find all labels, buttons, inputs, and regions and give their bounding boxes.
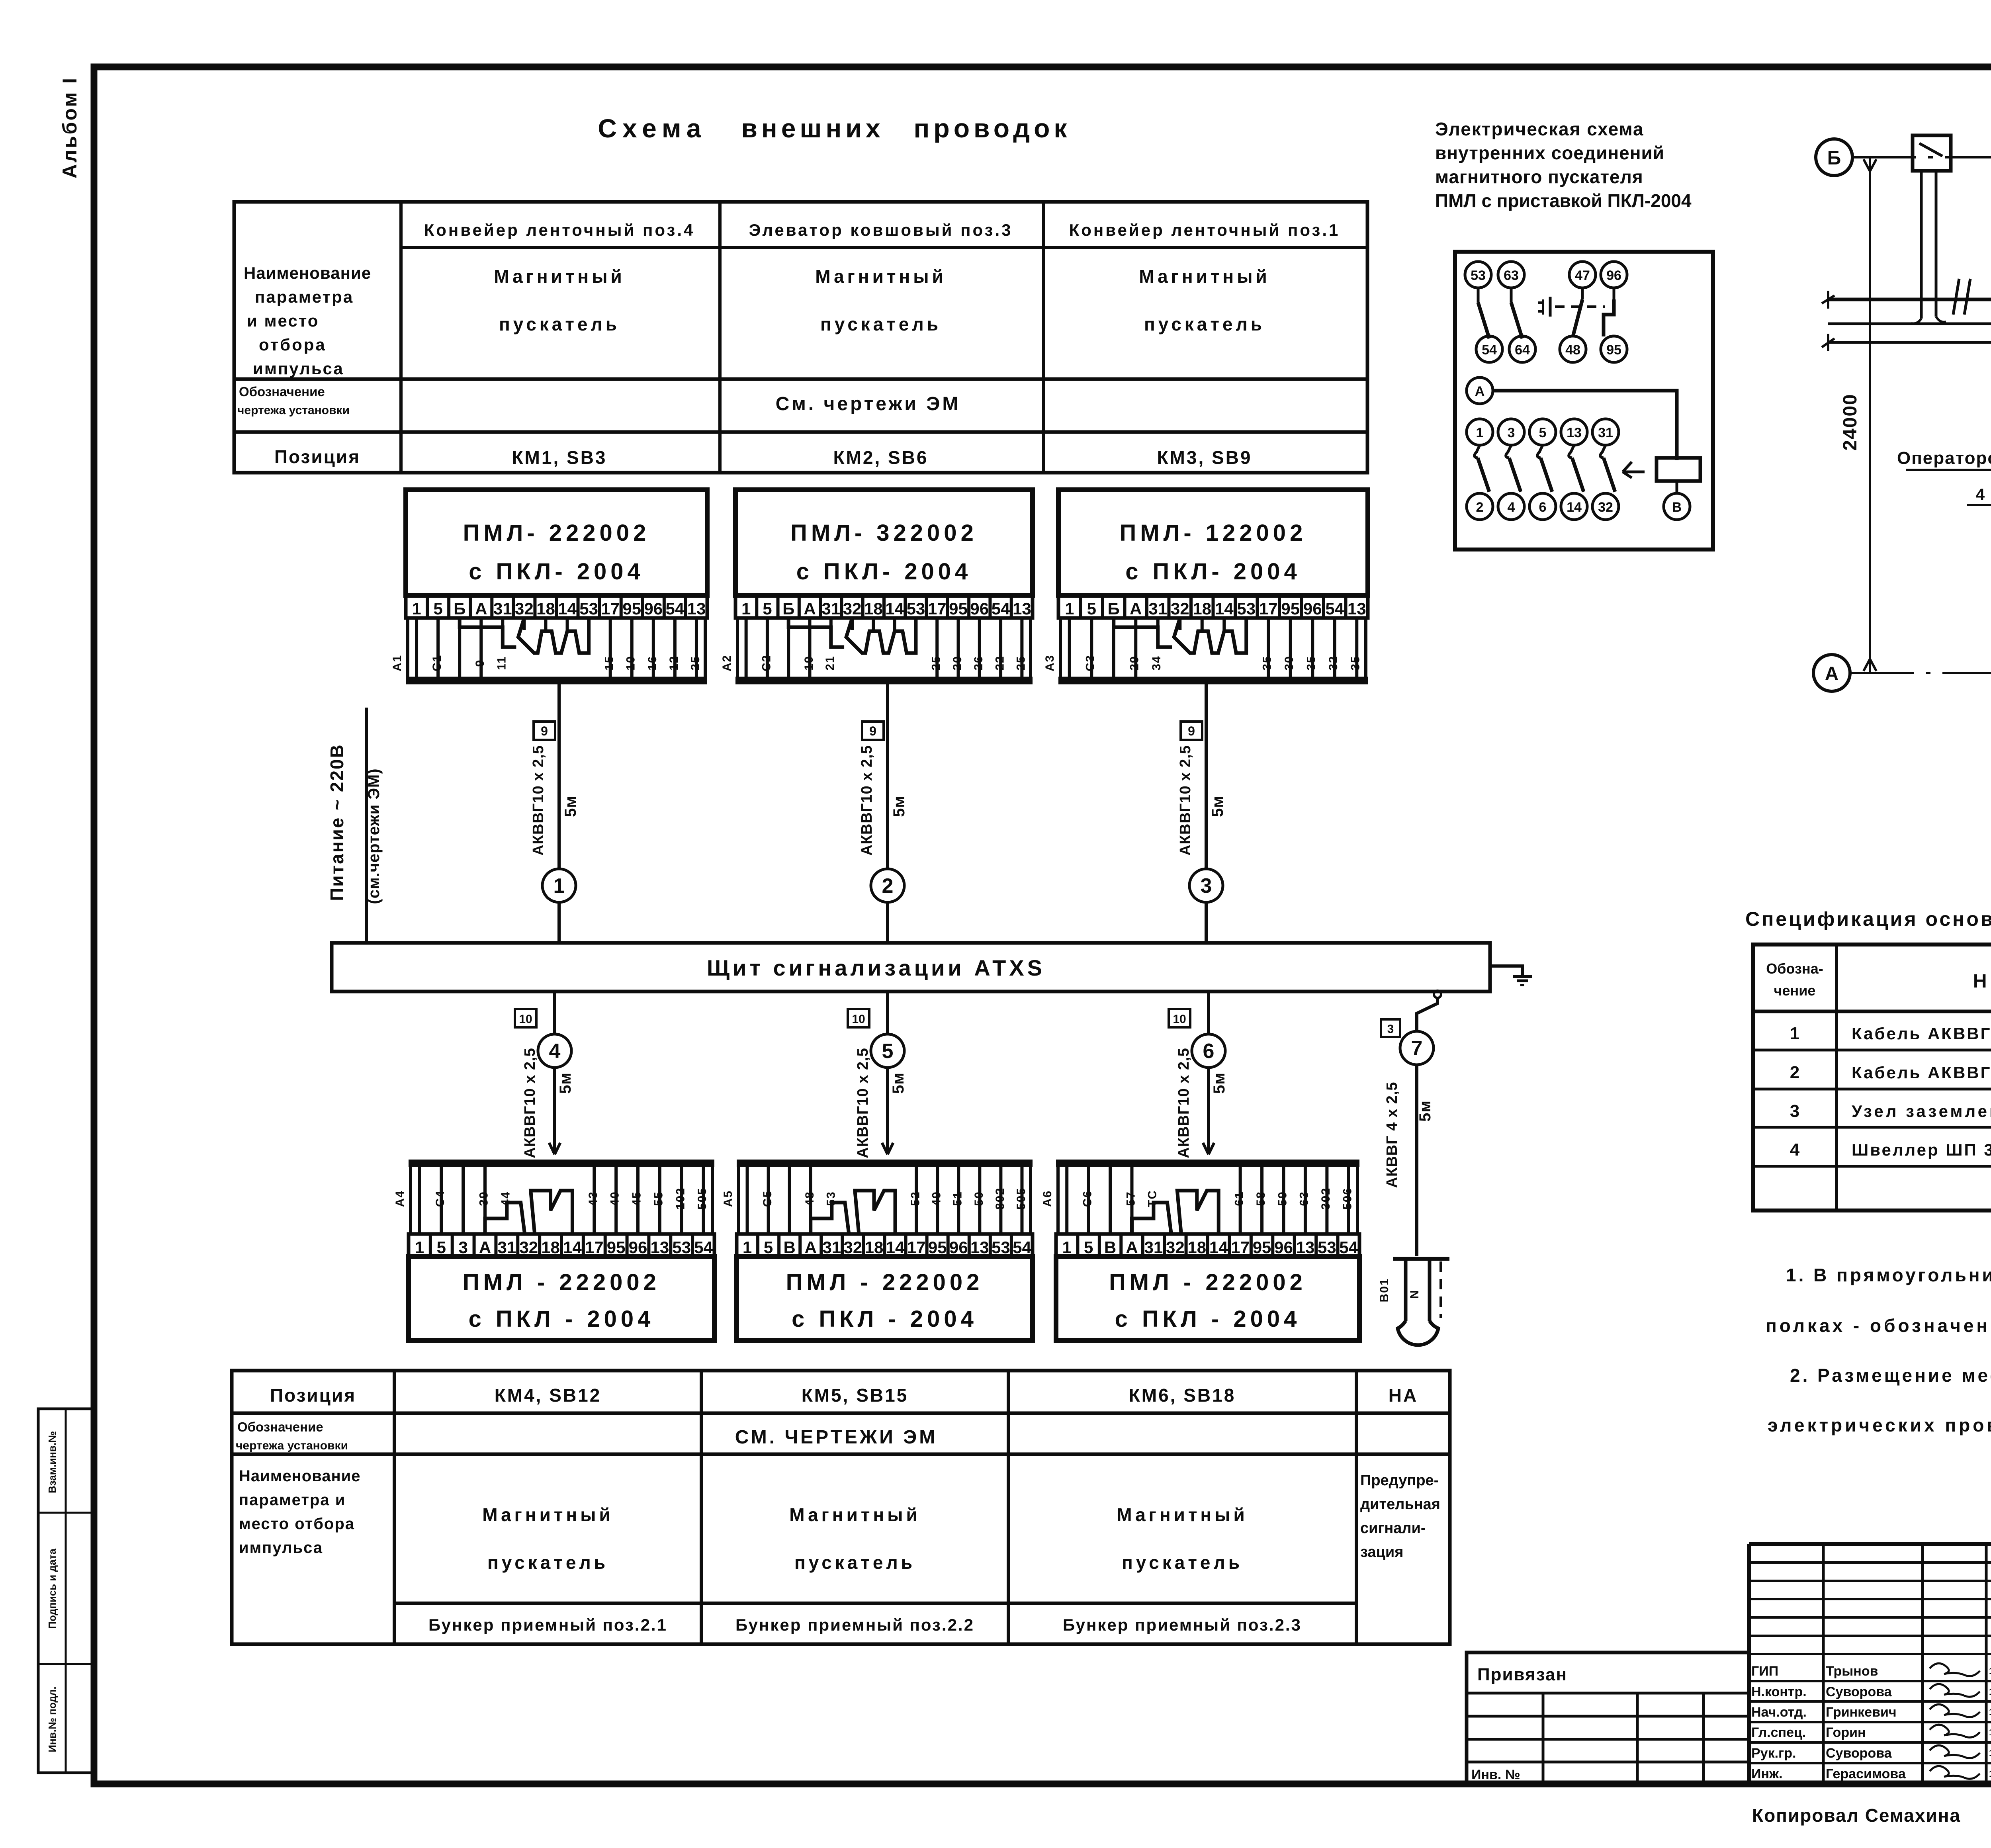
svg-text:96: 96 bbox=[1274, 1238, 1293, 1257]
svg-text:КМ4, SB12: КМ4, SB12 bbox=[495, 1385, 602, 1406]
svg-text:31: 31 bbox=[1148, 599, 1167, 618]
upper table cell magnitny puskatel bbox=[815, 266, 947, 334]
svg-text:17: 17 bbox=[585, 1238, 604, 1257]
svg-text:18: 18 bbox=[1187, 1238, 1206, 1257]
note 1 line 1 bbox=[1786, 1265, 1991, 1285]
svg-text:и место: и место bbox=[247, 311, 319, 330]
svg-text:Конвейер ленточный поз.4: Конвейер ленточный поз.4 bbox=[424, 221, 695, 239]
position HA bbox=[1389, 1385, 1418, 1406]
svg-text:Обозначение: Обозначение bbox=[237, 1420, 323, 1434]
svg-text:5м: 5м bbox=[890, 796, 908, 817]
svg-text:17: 17 bbox=[1231, 1238, 1250, 1257]
svg-text:3: 3 bbox=[1790, 1101, 1799, 1121]
svg-text:53: 53 bbox=[579, 599, 598, 618]
svg-text:9: 9 bbox=[473, 659, 487, 667]
svg-text:18: 18 bbox=[865, 1238, 884, 1257]
svg-text:14: 14 bbox=[1567, 500, 1582, 515]
cable 1 length label 5m bbox=[562, 796, 579, 817]
magnetic starter KM5 block bbox=[737, 1257, 1033, 1340]
svg-text:С3: С3 bbox=[1084, 655, 1097, 671]
cable node 6 bbox=[1192, 1034, 1225, 1068]
svg-text:15.12.86: 15.12.86 bbox=[1989, 1707, 1991, 1717]
svg-text:95: 95 bbox=[928, 1238, 947, 1257]
svg-text:32: 32 bbox=[515, 599, 534, 618]
svg-text:пускатель: пускатель bbox=[499, 314, 620, 334]
svg-text:Конвейер ленточный поз.1: Конвейер ленточный поз.1 bbox=[1069, 221, 1340, 239]
svg-text:5: 5 bbox=[882, 1040, 894, 1063]
conveyor line 3 bbox=[1828, 341, 1991, 344]
svg-text:А: А bbox=[1475, 384, 1485, 399]
cable top bar of KM4 bbox=[409, 1163, 714, 1234]
svg-text:31: 31 bbox=[821, 599, 840, 618]
svg-text:Гл.спец.: Гл.спец. bbox=[1751, 1725, 1806, 1740]
svg-text:5: 5 bbox=[437, 1238, 446, 1257]
svg-text:57: 57 bbox=[1124, 1191, 1137, 1206]
svg-text:40: 40 bbox=[608, 1191, 622, 1206]
position KM5 SB15 bbox=[802, 1385, 909, 1406]
svg-text:15.12.86: 15.12.86 bbox=[1989, 1727, 1991, 1737]
svg-text:А: А bbox=[1130, 599, 1142, 618]
svg-text:с ПКЛ- 2004: с ПКЛ- 2004 bbox=[796, 559, 972, 585]
svg-text:Суворова: Суворова bbox=[1826, 1684, 1892, 1699]
svg-text:АКВВГ10 х 2,5: АКВВГ10 х 2,5 bbox=[530, 745, 547, 855]
svg-text:44: 44 bbox=[499, 1191, 512, 1206]
svg-text:Рук.гр.: Рук.гр. bbox=[1751, 1746, 1796, 1761]
svg-text:10: 10 bbox=[852, 1013, 865, 1026]
panel ground symbol bbox=[1490, 966, 1532, 985]
svg-text:АКВВГ10 х 2,5: АКВВГ10 х 2,5 bbox=[1177, 745, 1194, 855]
bottom table row label oboznachenie bbox=[236, 1420, 348, 1452]
svg-text:проводок: проводок bbox=[914, 113, 1071, 143]
wire labels at KM1 bbox=[391, 655, 702, 671]
cable 6 marking box bbox=[1169, 1009, 1190, 1027]
magnetic starter KM2 block bbox=[735, 490, 1033, 595]
svg-text:импульса: импульса bbox=[253, 359, 344, 378]
svg-text:96: 96 bbox=[970, 599, 989, 618]
svg-text:32: 32 bbox=[844, 1238, 863, 1257]
svg-text:АКВВГ10 х 2,5: АКВВГ10 х 2,5 bbox=[522, 1048, 538, 1158]
cable 5 marking box bbox=[848, 1009, 869, 1027]
svg-text:13: 13 bbox=[1296, 1238, 1315, 1257]
svg-text:24000: 24000 bbox=[1840, 393, 1861, 450]
margin label inv podl bbox=[46, 1686, 58, 1752]
svg-text:Предупре-: Предупре- bbox=[1360, 1472, 1439, 1489]
svg-text:Наименование: Наименование bbox=[244, 264, 371, 282]
cable 3 length label 5m bbox=[1209, 796, 1226, 817]
svg-text:15.12.86: 15.12.86 bbox=[1989, 1666, 1991, 1676]
svg-text:17: 17 bbox=[907, 1238, 926, 1257]
svg-text:31: 31 bbox=[1144, 1238, 1163, 1257]
svg-text:2: 2 bbox=[1476, 500, 1484, 515]
svg-text:6: 6 bbox=[1539, 500, 1547, 515]
svg-text:5: 5 bbox=[1539, 425, 1547, 440]
cable node 7 bbox=[1400, 1031, 1434, 1065]
cable wire 3 bbox=[1205, 683, 1208, 943]
svg-text:место отбора: место отбора bbox=[239, 1515, 355, 1533]
svg-text:Н.контр.: Н.контр. bbox=[1751, 1684, 1807, 1699]
svg-text:Магнитный: Магнитный bbox=[1139, 266, 1270, 287]
bottom table cell bunker poz 2.2 bbox=[735, 1615, 974, 1634]
svg-text:СМ. ЧЕРТЕЖИ ЭМ: СМ. ЧЕРТЕЖИ ЭМ bbox=[735, 1427, 938, 1448]
internal diagram box bbox=[1455, 252, 1713, 550]
upper table row label pozicija bbox=[274, 446, 360, 467]
svg-text:53: 53 bbox=[672, 1238, 691, 1257]
svg-text:зация: зация bbox=[1360, 1544, 1403, 1561]
terminal strip of KM1 bbox=[406, 595, 707, 618]
bottom table row label pozicija bbox=[270, 1385, 356, 1406]
svg-text:52: 52 bbox=[909, 1191, 922, 1206]
svg-text:В: В bbox=[1672, 500, 1682, 515]
svg-text:13: 13 bbox=[1013, 599, 1031, 618]
svg-text:59: 59 bbox=[1276, 1191, 1289, 1206]
album label (margin) bbox=[59, 76, 81, 178]
svg-text:НА: НА bbox=[1389, 1385, 1418, 1406]
internal diagram title bbox=[1435, 119, 1692, 211]
specification table grid bbox=[1753, 945, 1991, 1210]
svg-text:49: 49 bbox=[930, 1191, 943, 1206]
cable 3 marking box bbox=[1181, 722, 1202, 740]
svg-text:51: 51 bbox=[951, 1191, 964, 1206]
svg-text:18: 18 bbox=[536, 599, 555, 618]
privjazan block grid bbox=[1467, 1652, 1749, 1784]
svg-text:Бункер приемный поз.2.2: Бункер приемный поз.2.2 bbox=[735, 1615, 974, 1634]
svg-text:Наименование: Наименование bbox=[1973, 971, 1991, 992]
magnetic starter KM6 block bbox=[1056, 1257, 1359, 1340]
svg-text:48: 48 bbox=[803, 1191, 816, 1206]
svg-text:10: 10 bbox=[1173, 1013, 1186, 1026]
svg-text:96: 96 bbox=[1606, 268, 1621, 283]
conveyor line 1 bbox=[1828, 298, 1991, 301]
cable 7 length label 5m bbox=[1416, 1100, 1434, 1122]
svg-text:31: 31 bbox=[1598, 425, 1613, 440]
bell label N bbox=[1408, 1289, 1421, 1299]
svg-text:14: 14 bbox=[886, 1238, 905, 1257]
svg-text:Бункер приемный поз.2.3: Бункер приемный поз.2.3 bbox=[1063, 1615, 1302, 1634]
title block grid bbox=[1749, 1544, 1991, 1784]
svg-text:505: 505 bbox=[1015, 1187, 1028, 1210]
svg-text:53: 53 bbox=[907, 599, 925, 618]
svg-text:53: 53 bbox=[1318, 1238, 1336, 1257]
upper table row label naimenovanie bbox=[244, 264, 371, 378]
svg-text:АКВВГ10 х 2,5: АКВВГ10 х 2,5 bbox=[1175, 1048, 1192, 1158]
svg-text:Позиция: Позиция bbox=[274, 446, 360, 467]
supply wire 220V bbox=[365, 708, 368, 943]
svg-text:13: 13 bbox=[1567, 425, 1582, 440]
svg-text:2. Размещение местных прибор: 2. Размещение местных приборов, аппарату… bbox=[1790, 1365, 1991, 1386]
cable 6 length label 5m bbox=[1211, 1072, 1228, 1094]
svg-text:Элеватор ковшовый поз.3: Элеватор ковшовый поз.3 bbox=[749, 221, 1013, 239]
svg-text:Обозна-: Обозна- bbox=[1766, 960, 1823, 977]
arrow fork symbol bbox=[1623, 462, 1645, 478]
svg-text:Операторская: Операторская bbox=[1897, 448, 1991, 468]
cable wire 6 bbox=[1203, 991, 1214, 1154]
svg-text:25: 25 bbox=[1015, 655, 1028, 670]
svg-text:чение: чение bbox=[1774, 982, 1816, 999]
axis line B bbox=[1852, 156, 1991, 158]
svg-text:Бункер приемный поз.2.1: Бункер приемный поз.2.1 bbox=[428, 1615, 667, 1634]
wire stubs and jumpers above KM5 bbox=[747, 1167, 1022, 1234]
svg-text:5м: 5м bbox=[890, 1072, 907, 1094]
cable 1 type label AKVVG bbox=[530, 745, 547, 855]
svg-text:54: 54 bbox=[1482, 342, 1497, 358]
button contacts row 1-31 bbox=[1467, 419, 1619, 520]
svg-text:302: 302 bbox=[1319, 1187, 1332, 1210]
svg-text:2: 2 bbox=[1790, 1063, 1799, 1082]
svg-text:31: 31 bbox=[497, 1238, 516, 1257]
svg-text:внешних: внешних bbox=[741, 113, 884, 143]
svg-text:чертежа установки: чертежа установки bbox=[237, 404, 350, 417]
upper table cell magnitny puskatel bbox=[1139, 266, 1270, 334]
svg-text:Подпись и дата: Подпись и дата bbox=[46, 1549, 58, 1629]
svg-text:пускатель: пускатель bbox=[487, 1552, 608, 1573]
svg-text:506: 506 bbox=[1341, 1187, 1354, 1210]
axis line A bbox=[1850, 672, 1991, 674]
svg-text:96: 96 bbox=[644, 599, 663, 618]
svg-text:19: 19 bbox=[802, 655, 816, 670]
svg-text:5м: 5м bbox=[1209, 796, 1226, 817]
cable node 4 bbox=[538, 1034, 571, 1068]
svg-text:Схема: Схема bbox=[598, 113, 706, 143]
power contact terminals 63-64 bbox=[1498, 262, 1535, 362]
svg-text:Электрическая схема: Электрическая схема bbox=[1435, 119, 1644, 139]
svg-text:АКВВГ10 х 2,5: АКВВГ10 х 2,5 bbox=[859, 745, 875, 855]
aux contact terminals 47-48 bbox=[1560, 262, 1596, 362]
svg-text:Кабель АКВВГ 4 х 2,5 ГОСТ 1: Кабель АКВВГ 4 х 2,5 ГОСТ 1508-78* Е bbox=[1852, 1024, 1991, 1043]
svg-text:Б: Б bbox=[782, 599, 794, 618]
note 1 line 2 bbox=[1766, 1315, 1991, 1336]
title block signature row ГИП Трынов bbox=[1751, 1663, 1991, 1679]
svg-text:КМ2, SB6: КМ2, SB6 bbox=[833, 447, 928, 468]
svg-text:с ПКЛ- 2004: с ПКЛ- 2004 bbox=[469, 559, 644, 585]
svg-text:1: 1 bbox=[1062, 1238, 1072, 1257]
svg-text:ГИП: ГИП bbox=[1751, 1664, 1778, 1679]
svg-text:5м: 5м bbox=[557, 1072, 574, 1094]
svg-text:96: 96 bbox=[949, 1238, 968, 1257]
dimension text 24000 bbox=[1840, 393, 1861, 450]
pole box with switch bbox=[1911, 135, 1951, 324]
cable node 3 bbox=[1189, 869, 1223, 902]
svg-text:А4: А4 bbox=[393, 1190, 407, 1207]
title block signature row Н.контр. Суворова bbox=[1751, 1684, 1991, 1699]
svg-text:54: 54 bbox=[1013, 1238, 1031, 1257]
svg-text:16: 16 bbox=[646, 655, 659, 670]
svg-text:Кабель АКВВГ 10 х 2,5 ГОСТ 1: Кабель АКВВГ 10 х 2,5 ГОСТ 1508-78*Е bbox=[1852, 1063, 1991, 1082]
svg-text:53: 53 bbox=[1471, 268, 1486, 283]
terminal strip of KM4 bbox=[409, 1234, 714, 1257]
svg-text:Швеллер ШП 32 х 16 ТУ 36.11: Швеллер ШП 32 х 16 ТУ 36.1113 -75 bbox=[1852, 1140, 1991, 1159]
svg-text:Наименование: Наименование bbox=[239, 1467, 360, 1485]
svg-text:Б: Б bbox=[1108, 599, 1120, 618]
svg-text:54: 54 bbox=[1325, 599, 1344, 618]
svg-text:17: 17 bbox=[928, 599, 947, 618]
svg-text:4: 4 bbox=[549, 1040, 561, 1063]
svg-text:54: 54 bbox=[666, 599, 685, 618]
svg-text:5м: 5м bbox=[562, 796, 579, 817]
svg-text:магнитного пускателя: магнитного пускателя bbox=[1435, 166, 1643, 187]
svg-text:Трынов: Трынов bbox=[1826, 1664, 1878, 1679]
svg-text:А: А bbox=[475, 599, 487, 618]
svg-text:с ПКЛ - 2004: с ПКЛ - 2004 bbox=[1115, 1306, 1301, 1332]
svg-text:1: 1 bbox=[1790, 1024, 1799, 1043]
svg-text:54: 54 bbox=[992, 599, 1010, 618]
aux contact linkage dashes bbox=[1538, 297, 1605, 317]
terminal strip of KM2 bbox=[735, 595, 1033, 618]
svg-text:1: 1 bbox=[1476, 425, 1484, 440]
svg-text:54: 54 bbox=[694, 1238, 713, 1257]
svg-text:13: 13 bbox=[1348, 599, 1366, 618]
svg-text:18: 18 bbox=[864, 599, 883, 618]
svg-text:47: 47 bbox=[1575, 268, 1590, 283]
bottom table row label naimenovanie bbox=[239, 1467, 360, 1557]
starter coil bbox=[1657, 458, 1700, 481]
bottom table cell magnitny puskatel bbox=[1117, 1504, 1248, 1573]
svg-text:А: А bbox=[805, 1238, 817, 1257]
position KM3 SB9 bbox=[1157, 447, 1252, 468]
svg-text:95: 95 bbox=[1253, 1238, 1271, 1257]
svg-text:55: 55 bbox=[652, 1191, 665, 1206]
cable 2 marking box bbox=[862, 722, 884, 740]
wire stubs and jumpers under KM1 bbox=[417, 618, 696, 677]
cable 6 type label AKVVG bbox=[1175, 1048, 1192, 1158]
svg-text:5: 5 bbox=[1084, 1238, 1093, 1257]
svg-text:9: 9 bbox=[1188, 724, 1195, 738]
upper parameter table grid bbox=[234, 202, 1367, 473]
position KM6 SB18 bbox=[1129, 1385, 1236, 1406]
svg-text:4: 4 bbox=[1790, 1140, 1800, 1160]
terminal bottom bar of KM2 bbox=[735, 618, 1033, 681]
svg-text:32: 32 bbox=[1171, 599, 1189, 618]
upper table cell magnitny puskatel bbox=[494, 266, 625, 334]
cable top bar of KM5 bbox=[737, 1163, 1033, 1234]
svg-text:3: 3 bbox=[1201, 874, 1212, 898]
svg-text:См. чертежи ЭМ: См. чертежи ЭМ bbox=[776, 393, 961, 415]
svg-text:1: 1 bbox=[741, 599, 751, 618]
svg-text:17: 17 bbox=[1259, 599, 1278, 618]
supply label pitanie 220V bbox=[327, 743, 347, 901]
svg-text:Горин: Горин bbox=[1826, 1725, 1866, 1740]
svg-text:50: 50 bbox=[972, 1191, 986, 1206]
cable wire 1 bbox=[557, 683, 561, 943]
svg-text:5: 5 bbox=[763, 599, 772, 618]
svg-text:13: 13 bbox=[970, 1238, 989, 1257]
svg-text:ПМЛ- 322002: ПМЛ- 322002 bbox=[790, 520, 978, 546]
svg-text:Спецификация основных монтажны: Спецификация основных монтажных материал… bbox=[1745, 908, 1991, 930]
svg-text:с ПКЛ- 2004: с ПКЛ- 2004 bbox=[1125, 559, 1301, 585]
svg-text:Копировал Семахина: Копировал Семахина bbox=[1752, 1805, 1961, 1826]
svg-text:20: 20 bbox=[951, 655, 964, 670]
svg-text:ПМЛ - 222002: ПМЛ - 222002 bbox=[786, 1269, 984, 1295]
svg-text:Инв. №: Инв. № bbox=[1471, 1767, 1520, 1782]
bottom table cell bunker poz 2.1 bbox=[428, 1615, 667, 1634]
wire labels above KM4 bbox=[393, 1187, 709, 1210]
svg-text:пускатель: пускатель bbox=[1144, 314, 1265, 334]
magnetic starter KM3 block bbox=[1058, 490, 1368, 595]
svg-text:58: 58 bbox=[1254, 1191, 1267, 1206]
position KM1 SB3 bbox=[512, 447, 607, 468]
svg-text:15.12.86: 15.12.86 bbox=[1989, 1687, 1991, 1697]
svg-text:34: 34 bbox=[1150, 655, 1163, 670]
svg-text:13: 13 bbox=[650, 1238, 669, 1257]
svg-text:22: 22 bbox=[993, 655, 1006, 670]
svg-text:3: 3 bbox=[1508, 425, 1515, 440]
svg-text:802: 802 bbox=[994, 1187, 1007, 1210]
svg-text:54: 54 bbox=[1339, 1238, 1358, 1257]
svg-text:31: 31 bbox=[493, 599, 512, 618]
wire labels above KM6 bbox=[1041, 1187, 1354, 1210]
upper table col header konveier poz1 bbox=[1069, 221, 1340, 239]
svg-text:Магнитный: Магнитный bbox=[494, 266, 625, 287]
margin label podpis i data bbox=[46, 1549, 58, 1629]
wire labels at KM2 bbox=[720, 655, 1028, 671]
svg-text:Гринкевич: Гринкевич bbox=[1826, 1705, 1897, 1720]
svg-text:14: 14 bbox=[1215, 599, 1234, 618]
svg-text:10: 10 bbox=[519, 1013, 532, 1026]
svg-text:53: 53 bbox=[1237, 599, 1256, 618]
svg-text:25: 25 bbox=[930, 655, 943, 670]
svg-text:53: 53 bbox=[992, 1238, 1010, 1257]
note 2 line 2 bbox=[1768, 1415, 1991, 1435]
svg-text:21: 21 bbox=[823, 655, 837, 670]
inv no label bbox=[1471, 1767, 1520, 1782]
svg-text:63: 63 bbox=[1298, 1191, 1311, 1206]
label 4 with leader bbox=[1967, 486, 1991, 641]
aux contact terminals 96-95 bbox=[1601, 262, 1627, 362]
svg-text:61: 61 bbox=[1232, 1191, 1246, 1206]
svg-text:15: 15 bbox=[603, 655, 616, 670]
svg-text:А: А bbox=[804, 599, 816, 618]
svg-text:КМ1, SB3: КМ1, SB3 bbox=[512, 447, 607, 468]
spec header oboznachenie bbox=[1766, 960, 1823, 999]
svg-text:КМ6, SB18: КМ6, SB18 bbox=[1129, 1385, 1236, 1406]
terminal strip of KM6 bbox=[1056, 1234, 1359, 1257]
cable wire 2 bbox=[886, 683, 889, 943]
svg-text:14: 14 bbox=[563, 1238, 582, 1257]
signal panel Shchit signalizacii ATXS bbox=[332, 943, 1490, 991]
svg-text:17: 17 bbox=[601, 599, 620, 618]
svg-text:1. В прямоугольниках указана: 1. В прямоугольниках указана маркировка … bbox=[1786, 1265, 1991, 1285]
svg-text:пускатель: пускатель bbox=[794, 1552, 915, 1573]
svg-text:ПМЛ с приставкой ПКЛ-2004: ПМЛ с приставкой ПКЛ-2004 bbox=[1435, 190, 1692, 211]
kopiroval line bbox=[1752, 1805, 1991, 1826]
bottom table cell predupreditelnaja signalizacija bbox=[1360, 1472, 1440, 1561]
coil terminal B bbox=[1664, 481, 1690, 520]
svg-text:С1: С1 bbox=[430, 655, 444, 671]
svg-text:ПМЛ - 222002: ПМЛ - 222002 bbox=[463, 1269, 660, 1295]
svg-text:95: 95 bbox=[607, 1238, 626, 1257]
svg-text:А3: А3 bbox=[1043, 655, 1056, 671]
margin label vzam inv bbox=[46, 1431, 58, 1493]
svg-text:С2: С2 bbox=[760, 655, 773, 671]
cable 4 type label AKVVG bbox=[522, 1048, 538, 1158]
left margin stamp table bbox=[38, 1409, 93, 1773]
svg-text:N: N bbox=[1408, 1289, 1421, 1299]
cable top bar of KM6 bbox=[1056, 1163, 1359, 1234]
svg-text:С4: С4 bbox=[434, 1190, 447, 1207]
svg-text:Щит сигнализации АТХS: Щит сигнализации АТХS bbox=[707, 955, 1045, 980]
drawing title bbox=[598, 113, 1071, 143]
bottom table cell magnitny puskatel bbox=[482, 1504, 614, 1573]
bottom parameter table grid bbox=[232, 1371, 1450, 1644]
svg-text:АКВВГ10 х 2,5: АКВВГ10 х 2,5 bbox=[855, 1048, 871, 1158]
svg-text:7: 7 bbox=[1411, 1037, 1423, 1060]
node A terminal bbox=[1467, 377, 1493, 404]
upper table col header konveier poz4 bbox=[424, 221, 695, 239]
cable 4 length label 5m bbox=[557, 1072, 574, 1094]
svg-text:импульса: импульса bbox=[239, 1539, 323, 1557]
svg-text:Обозначение: Обозначение bbox=[239, 384, 325, 399]
specification title bbox=[1745, 908, 1991, 930]
svg-text:31: 31 bbox=[822, 1238, 841, 1257]
